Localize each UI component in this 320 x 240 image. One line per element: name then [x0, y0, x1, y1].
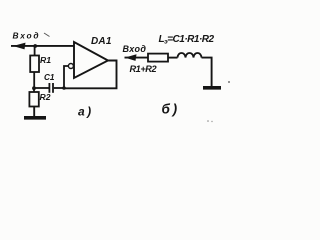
wire: C1 to node B: [54, 87, 64, 89]
svg-text:DA1: DA1: [91, 36, 112, 47]
label R1: [40, 55, 51, 65]
input label "Вход" (right circuit): [123, 44, 147, 54]
junction node A (R1/R2/C1): [32, 86, 36, 90]
label а): [78, 105, 94, 119]
label DA1: [91, 36, 112, 47]
ground (left): [24, 116, 46, 120]
inductor Lэ (equivalent inductance coil): [178, 53, 202, 58]
wire: R2 to ground: [33, 107, 35, 118]
wire: op-amp output feedback loop: [64, 61, 117, 89]
svg-text:R1+R2: R1+R2: [130, 64, 158, 74]
resistor R1: [30, 56, 39, 73]
capacitor C1: [49, 83, 53, 93]
input label "Вход" (left circuit): [13, 31, 41, 41]
wire: inductor to ground: [202, 58, 212, 87]
svg-text:Lэ=С1·R1·R2: Lэ=С1·R1·R2: [159, 34, 215, 46]
svg-text:Вход: Вход: [123, 44, 147, 54]
scan speck (right margin): [207, 81, 230, 122]
junction node on input wire: [33, 44, 37, 48]
op-amp DA1: [74, 42, 108, 78]
svg-text:R2: R2: [40, 92, 51, 102]
stray scan mark: [44, 33, 50, 37]
wire: node A to C1: [34, 87, 49, 89]
label C1: [44, 73, 55, 82]
svg-text:б): б): [162, 102, 180, 117]
svg-text:Вход: Вход: [13, 31, 41, 41]
wire: node A to R2: [33, 88, 35, 92]
resistor R1+R2 (equivalent series resistance): [148, 54, 168, 62]
label б): [162, 102, 180, 117]
wire: R1 to node A: [33, 72, 35, 88]
wire: junction down to R1: [34, 46, 36, 56]
svg-text:а): а): [78, 105, 94, 119]
resistor R2: [29, 92, 38, 107]
label Lэ=С1·R1·R2: [159, 34, 215, 46]
wire: input to op-amp non-inverting input: [11, 45, 75, 47]
label R1+R2: [130, 64, 158, 74]
input terminal arrow (right): [125, 54, 137, 61]
label R2: [40, 92, 51, 102]
svg-text:C1: C1: [44, 73, 55, 82]
ground (right): [203, 86, 221, 90]
wire: node B up to inverting input: [64, 66, 68, 88]
inversion bubble (inverting input): [68, 64, 73, 69]
wire: resistor to inductor: [168, 57, 178, 59]
wire: arrow to resistor: [125, 57, 149, 59]
junction node B (feedback tap): [62, 86, 66, 90]
input terminal arrow (left): [13, 43, 26, 50]
svg-text:R1: R1: [40, 55, 51, 65]
